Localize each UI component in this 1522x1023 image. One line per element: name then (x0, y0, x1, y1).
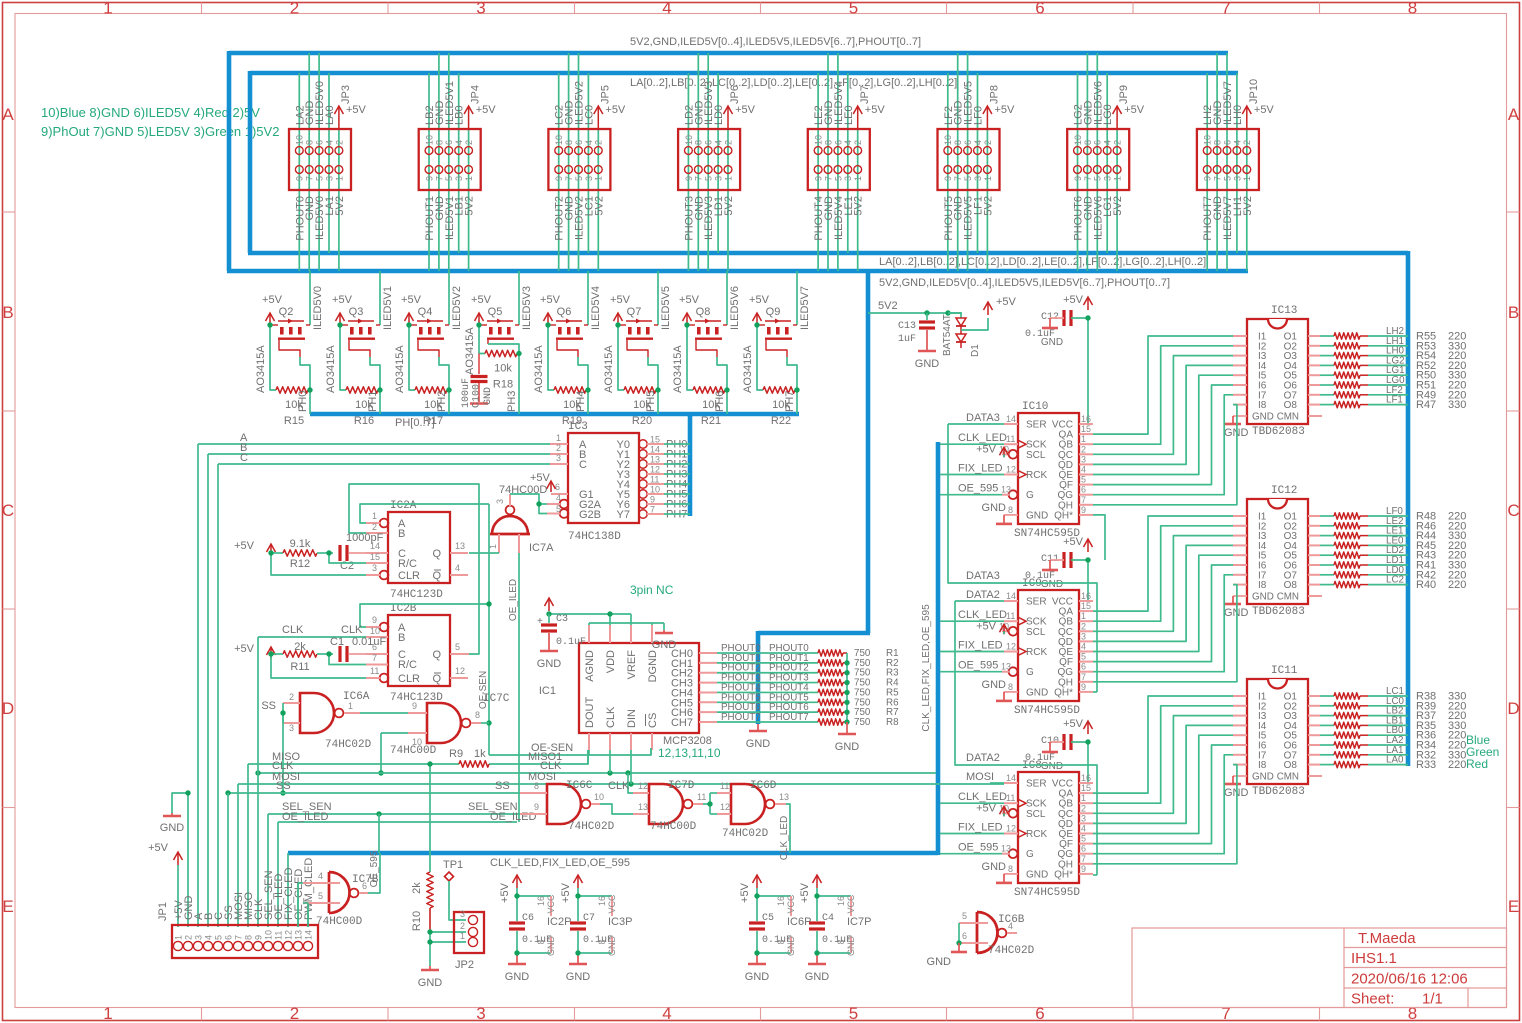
wire ILED5V5 from bus to Q7 (658, 271, 672, 330)
svg-text:R8: R8 (886, 717, 899, 728)
svg-text:1: 1 (1081, 434, 1086, 444)
svg-text:R9: R9 (449, 748, 463, 760)
svg-text:Q2: Q2 (279, 306, 294, 318)
svg-text:5: 5 (455, 642, 460, 652)
svg-text:+5V: +5V (476, 104, 497, 116)
svg-text:Q6: Q6 (557, 306, 572, 318)
svg-text:R22: R22 (771, 415, 791, 427)
svg-text:12: 12 (638, 781, 648, 791)
svg-text:CMN: CMN (1277, 592, 1299, 603)
svg-text:FIX_LED: FIX_LED (958, 822, 1003, 834)
svg-text:3: 3 (1103, 176, 1113, 181)
wire R10 to JP2 pin2 and GND (427, 929, 466, 966)
svg-text:7: 7 (1081, 854, 1086, 864)
svg-text:6: 6 (1035, 0, 1044, 18)
svg-text:10: 10 (684, 135, 694, 145)
frame row letters left (2, 105, 14, 916)
wire IC2A pin A to OE-SEN vertical (360, 504, 489, 523)
svg-text:9: 9 (814, 176, 824, 181)
svg-text:GND: GND (746, 738, 771, 750)
svg-text:OE_ILED: OE_ILED (508, 579, 519, 621)
svg-text:DATA3: DATA3 (966, 412, 1000, 424)
svg-text:PH5: PH5 (645, 391, 657, 412)
svg-text:MOSI: MOSI (528, 771, 556, 783)
IC12 output resistors and LED nets (1308, 506, 1466, 591)
svg-text:AO3415A: AO3415A (672, 345, 684, 393)
GND symbol below JP2 wires (418, 966, 443, 989)
svg-text:8: 8 (1083, 140, 1093, 145)
svg-text:JP2: JP2 (455, 959, 474, 971)
wire IC2B Q to IC2A pin B (349, 484, 479, 654)
wire gate of Q3 to resistor junction (370, 357, 380, 390)
pin net labels below JP3 (294, 196, 346, 241)
svg-text:1: 1 (103, 0, 112, 18)
svg-text:OE_595: OE_595 (958, 483, 998, 495)
svg-text:9: 9 (295, 176, 305, 181)
+5V arrow at C5 (739, 875, 762, 903)
svg-text:+5V: +5V (735, 104, 756, 116)
capacitor C6 0.1uF bypass for IC2P (509, 888, 571, 953)
svg-text:LA0: LA0 (324, 105, 336, 125)
svg-text:PH6: PH6 (714, 391, 726, 412)
svg-text:1: 1 (723, 176, 733, 181)
svg-text:11: 11 (1006, 793, 1015, 803)
svg-text:10: 10 (424, 135, 434, 145)
svg-text:ILED5V2: ILED5V2 (451, 286, 463, 330)
+5V arrow at C6 (499, 875, 522, 903)
wires for connector JP7 (818, 53, 858, 271)
svg-text:6: 6 (574, 140, 584, 145)
svg-text:I8: I8 (1258, 580, 1267, 591)
svg-text:VCC: VCC (607, 894, 617, 914)
svg-text:+5V: +5V (799, 882, 811, 903)
pin net labels above JP10 (1202, 81, 1244, 125)
svg-text:VDD: VDD (605, 650, 617, 673)
svg-text:8: 8 (434, 140, 444, 145)
wire JP1 PWM_CLED to IC7B pin5 (303, 903, 308, 927)
svg-text:SER: SER (1026, 420, 1047, 431)
svg-text:4: 4 (556, 493, 561, 503)
svg-text:5: 5 (962, 911, 967, 921)
wire IC6B inputs to GND (927, 923, 967, 968)
svg-text:SS: SS (276, 780, 291, 792)
svg-text:9: 9 (424, 176, 434, 181)
svg-text:LC2: LC2 (1386, 575, 1404, 586)
svg-text:2: 2 (460, 921, 465, 931)
svg-text:15: 15 (650, 435, 660, 445)
IC10 left pins (999, 414, 1026, 515)
svg-text:74HC02D: 74HC02D (568, 821, 615, 833)
svg-text:2: 2 (290, 0, 299, 18)
svg-text:220: 220 (1448, 759, 1466, 771)
svg-text:IC7C: IC7C (483, 693, 510, 705)
svg-text:GND: GND (982, 679, 1007, 691)
note text pin mapping line 2 (41, 124, 279, 139)
IC9 left pins (999, 591, 1026, 692)
svg-text:GND: GND (1252, 772, 1274, 783)
svg-text:1: 1 (1081, 611, 1086, 621)
svg-text:6: 6 (1081, 844, 1086, 854)
wire C4 VCC stub (817, 894, 856, 916)
capacitor C11 0.1uF (1025, 552, 1071, 590)
capacitor C3 0.1uF (537, 614, 586, 650)
wire ILED5V7 from bus to Q9 (797, 271, 811, 330)
svg-text:C100: C100 (472, 384, 483, 408)
svg-text:IC6C: IC6C (566, 780, 593, 792)
svg-text:+: + (537, 616, 543, 627)
svg-text:OE_ILED: OE_ILED (490, 811, 537, 823)
svg-text:GND: GND (1041, 579, 1063, 590)
svg-text:+5V: +5V (1063, 718, 1084, 730)
schottky diode D1 BAT54AT (942, 313, 981, 357)
wire source of Q4 down (409, 325, 415, 390)
svg-text:3: 3 (495, 499, 505, 504)
pin header connector JP9 (1067, 129, 1129, 190)
svg-text:12: 12 (283, 930, 293, 940)
svg-text:B: B (1508, 303, 1519, 322)
wire 5V2 from bus (868, 300, 962, 316)
svg-text:3: 3 (1081, 454, 1086, 464)
bus label CLK_LED,FIX_LED,OE_595 vertical (921, 604, 932, 732)
+5V supply arrow at JP4 (464, 85, 496, 129)
svg-text:2: 2 (723, 140, 733, 145)
svg-text:Q8: Q8 (696, 306, 711, 318)
svg-text:Sheet:: Sheet: (1351, 991, 1394, 1008)
svg-text:GND: GND (160, 822, 185, 834)
svg-text:4: 4 (318, 871, 323, 881)
+5V pullup at IC8 SCL (976, 802, 1008, 816)
svg-text:11: 11 (720, 781, 729, 791)
svg-text:74HC02D: 74HC02D (325, 739, 372, 751)
svg-text:13: 13 (638, 802, 648, 812)
svg-text:2: 2 (290, 1004, 299, 1023)
capacitor C5 0.1uF bypass for IC6P (749, 888, 811, 953)
+5V supply arrow at JP10 (1242, 79, 1274, 129)
svg-text:9: 9 (1081, 682, 1086, 692)
svg-text:1: 1 (334, 176, 344, 181)
svg-text:1: 1 (983, 176, 993, 181)
svg-text:SS: SS (495, 780, 510, 792)
svg-text:6: 6 (1081, 485, 1086, 495)
shift register IC10 SN74HC595D (1014, 401, 1080, 540)
wire D1 to +5V arrow (961, 296, 1017, 330)
+5V supply arrow at JP3 (334, 85, 366, 129)
IC12 input pin stubs (1233, 516, 1247, 585)
svg-text:G: G (1026, 667, 1034, 678)
pin net labels below JP9 (1073, 196, 1125, 241)
p-channel mosfet Q6 AO3415A (533, 319, 588, 394)
svg-text:R10: R10 (411, 911, 423, 931)
svg-text:9: 9 (1081, 505, 1086, 515)
svg-text:8: 8 (536, 939, 546, 944)
svg-text:3: 3 (289, 723, 294, 733)
wire ILED5V6 from bus to Q8 (727, 271, 741, 330)
svg-text:LD0: LD0 (713, 105, 725, 125)
svg-text:2: 2 (983, 140, 993, 145)
svg-text:1: 1 (372, 511, 377, 521)
svg-text:ILED5V0: ILED5V0 (312, 286, 324, 330)
svg-text:Q7: Q7 (627, 306, 642, 318)
svg-text:GND: GND (1026, 687, 1048, 698)
wire IC2A Q to IC7A input1 (469, 552, 499, 554)
resistor R16 10k (346, 387, 380, 427)
svg-text:D: D (2, 699, 14, 718)
svg-text:3: 3 (476, 0, 485, 18)
svg-text:LA[0..2],LB[0..2],LC[0..2],LD[: LA[0..2],LB[0..2],LC[0..2],LD[0..2],LE[0… (630, 77, 957, 89)
svg-text:+5V: +5V (610, 294, 631, 306)
led driver IC11 TBD62083 (1247, 665, 1308, 798)
wire C10 to +5V and VCC (1063, 718, 1092, 783)
+5V arrow at Q2 (262, 294, 293, 325)
wire source of Q5 down (479, 325, 485, 354)
svg-text:C13: C13 (898, 321, 916, 332)
svg-text:10: 10 (554, 135, 564, 145)
svg-text:GND: GND (1252, 412, 1274, 423)
svg-text:7: 7 (564, 176, 574, 181)
svg-text:Q: Q (432, 570, 441, 582)
svg-text:T.Maeda: T.Maeda (1358, 930, 1416, 947)
svg-text:8: 8 (1408, 1004, 1417, 1023)
svg-text:13: 13 (1001, 844, 1011, 854)
svg-text:1/1: 1/1 (1422, 991, 1443, 1008)
svg-text:LH0: LH0 (1232, 105, 1244, 125)
IC11 input pin stubs (1233, 696, 1247, 765)
title block (1132, 928, 1507, 1008)
svg-text:OE_595: OE_595 (369, 850, 380, 887)
svg-text:15: 15 (370, 552, 380, 562)
wire OE-SEN net vertical (478, 504, 492, 755)
svg-text:PH7: PH7 (784, 391, 796, 412)
svg-text:10: 10 (594, 792, 604, 802)
svg-text:R12: R12 (290, 558, 310, 570)
IC9 GND pin symbol (982, 679, 1018, 701)
svg-text:O8: O8 (1284, 760, 1298, 771)
svg-text:CLK_LED: CLK_LED (958, 791, 1007, 803)
pin net labels above JP5 (554, 81, 596, 125)
svg-text:2: 2 (372, 522, 377, 532)
p-channel mosfet Q3 AO3415A (325, 319, 380, 394)
+5V arrow at Q8 (679, 294, 710, 325)
svg-text:8: 8 (1408, 0, 1417, 18)
svg-text:11: 11 (697, 792, 706, 802)
svg-text:16: 16 (536, 896, 546, 906)
svg-text:JP1: JP1 (157, 902, 169, 921)
svg-text:C4: C4 (822, 913, 834, 924)
bus 5V2/GND/ILED5V/PHOUT outer loop top (229, 51, 1228, 56)
junction dots IC2A (268, 550, 331, 555)
svg-text:11: 11 (1006, 611, 1015, 621)
svg-text:LF1: LF1 (1386, 395, 1403, 406)
svg-text:6: 6 (1035, 1004, 1044, 1023)
svg-text:RCK: RCK (1026, 470, 1047, 481)
svg-text:12: 12 (455, 666, 465, 676)
svg-text:IC2P: IC2P (547, 916, 571, 928)
svg-text:15: 15 (1081, 601, 1091, 611)
svg-text:E: E (2, 897, 13, 916)
bus label LA..LH bottom (879, 256, 1206, 268)
junction dots at Q5 (476, 322, 521, 356)
wire source of Q3 down (340, 325, 346, 390)
svg-text:8: 8 (305, 140, 315, 145)
wire C6 GND stub (517, 936, 556, 957)
svg-text:13: 13 (779, 792, 789, 802)
svg-text:CMN: CMN (1277, 772, 1299, 783)
svg-text:10k: 10k (494, 363, 512, 375)
svg-text:CLR: CLR (398, 570, 420, 582)
svg-text:5: 5 (963, 176, 973, 181)
svg-text:R40: R40 (1416, 579, 1436, 591)
svg-text:74HC00D: 74HC00D (316, 916, 363, 928)
svg-text:8: 8 (534, 781, 539, 791)
pin net labels above JP4 (424, 81, 466, 125)
svg-text:IC7D: IC7D (668, 780, 695, 792)
+5V arrow at Q9 (749, 294, 780, 325)
IC3 input pins A B C (550, 433, 568, 464)
pin net labels below JP4 (424, 196, 476, 241)
svg-text:B: B (398, 528, 405, 540)
+5V arrow above JP1 pin1 (148, 842, 182, 865)
nand gate IC7A 74HC00D (488, 494, 554, 554)
svg-text:I8: I8 (1258, 760, 1267, 771)
svg-text:JP9: JP9 (1118, 85, 1130, 104)
svg-text:Red: Red (1466, 757, 1488, 771)
svg-text:3: 3 (1081, 813, 1086, 823)
svg-text:11: 11 (1006, 434, 1015, 444)
svg-text:R15: R15 (284, 415, 304, 427)
svg-text:CLK_LED: CLK_LED (779, 816, 790, 860)
svg-text:9: 9 (684, 176, 694, 181)
svg-text:1000pF: 1000pF (346, 532, 384, 544)
svg-text:1k: 1k (474, 748, 486, 760)
svg-text:9: 9 (372, 615, 377, 625)
svg-text:11: 11 (370, 666, 379, 676)
wire source of Q6 down (548, 325, 554, 390)
svg-text:+5V: +5V (346, 104, 367, 116)
svg-text:+5V: +5V (234, 643, 255, 655)
svg-text:14: 14 (303, 930, 313, 940)
wires into IC10 control pins (940, 412, 1007, 495)
svg-text:TBD62083: TBD62083 (1252, 606, 1305, 618)
wire C6 VCC stub (517, 894, 556, 916)
pin header connector JP8 (938, 129, 1000, 190)
wire gate of Q7 to resistor junction (648, 357, 658, 390)
svg-text:9: 9 (943, 176, 953, 181)
svg-text:O8: O8 (1284, 400, 1298, 411)
svg-text:JP3: JP3 (340, 85, 352, 104)
bus inner loop bottom (248, 251, 1408, 256)
wire gate of Q2 to resistor junction (300, 357, 310, 390)
bus label 5V2 top (630, 36, 921, 48)
+5V supply arrow at JP7 (853, 85, 885, 129)
svg-text:IC9: IC9 (1022, 578, 1042, 590)
svg-text:SS: SS (261, 700, 276, 712)
wire IC7C input2 to CLK row (378, 733, 408, 776)
resistor R20 10k (624, 387, 658, 427)
svg-text:D: D (1507, 699, 1519, 718)
nor gate IC6B 74HC02D spare (959, 911, 1035, 957)
IC8 left pins (999, 773, 1026, 874)
svg-text:16: 16 (597, 896, 607, 906)
pin net labels below JP8 (943, 196, 995, 241)
svg-text:1: 1 (173, 935, 183, 940)
svg-text:G: G (1026, 490, 1034, 501)
svg-text:PH1: PH1 (367, 391, 379, 412)
svg-text:VREF: VREF (626, 650, 638, 680)
wire source of Q9 down (757, 325, 763, 390)
svg-text:5: 5 (1081, 834, 1086, 844)
svg-text:+5V: +5V (976, 620, 997, 632)
p-channel mosfet Q9 AO3415A (742, 319, 797, 394)
svg-text:8: 8 (776, 939, 786, 944)
svg-text:RCK: RCK (1026, 829, 1047, 840)
bus inner loop left vertical (248, 71, 253, 253)
wire PH6 to bus (714, 390, 727, 414)
pin net labels above JP7 (813, 81, 855, 125)
nor gate IC6C 74HC02D (520, 780, 615, 833)
svg-text:+5V: +5V (262, 294, 283, 306)
bus PH0..7 horizontal (310, 412, 799, 417)
svg-text:14: 14 (1006, 773, 1016, 783)
junction dots IC2B (268, 651, 331, 656)
svg-text:CLK_LED: CLK_LED (958, 432, 1007, 444)
wire CLK to IC2B pin B (258, 624, 366, 637)
svg-text:RCK: RCK (1026, 647, 1047, 658)
svg-text:74HC02D: 74HC02D (988, 945, 1035, 957)
pin header JP2 (454, 909, 484, 971)
svg-text:LE0: LE0 (843, 105, 855, 125)
junction dots at Q4 (406, 322, 451, 392)
svg-text:1: 1 (460, 931, 465, 941)
wire IC6A out to IC7C in (360, 712, 408, 714)
IC13 input pin stubs (1233, 336, 1247, 405)
svg-text:A: A (2, 105, 14, 124)
svg-text:GND: GND (418, 977, 443, 989)
IC1 channel wires and PHOUT labels (699, 643, 818, 723)
svg-text:GND: GND (786, 936, 796, 957)
p-channel mosfet Q2 AO3415A (255, 319, 310, 394)
svg-text:14: 14 (650, 445, 660, 455)
svg-text:R/C: R/C (398, 558, 417, 570)
svg-text:C6: C6 (522, 913, 534, 924)
svg-text:JP5: JP5 (599, 85, 611, 104)
wire CLK row (255, 760, 936, 776)
svg-text:5V2: 5V2 (334, 196, 346, 216)
svg-text:CLK_LED,FIX_LED,OE_595: CLK_LED,FIX_LED,OE_595 (921, 604, 932, 732)
svg-text:1: 1 (464, 176, 474, 181)
wire PH3 to bus (506, 354, 519, 415)
svg-text:12,13,11,10: 12,13,11,10 (658, 746, 721, 760)
bus outer loop left vertical (227, 51, 232, 271)
svg-text:5: 5 (444, 176, 454, 181)
svg-text:5V2: 5V2 (593, 196, 605, 216)
wires for connector JP10 (1207, 53, 1247, 271)
svg-text:DOUT: DOUT (584, 697, 596, 728)
svg-text:C2: C2 (340, 560, 354, 572)
svg-text:2: 2 (556, 443, 561, 453)
svg-text:9: 9 (412, 701, 417, 711)
svg-text:8: 8 (694, 140, 704, 145)
p-channel mosfet Q7 AO3415A (603, 319, 658, 394)
resistor R19 10k (554, 387, 588, 427)
svg-text:16: 16 (1081, 591, 1091, 601)
svg-text:+5V: +5V (996, 296, 1017, 308)
svg-text:4: 4 (324, 140, 334, 145)
svg-text:PHOUT7: PHOUT7 (769, 712, 809, 723)
svg-text:1: 1 (594, 176, 604, 181)
svg-text:5V2,GND,ILED5V[0..4],ILED5V5,I: 5V2,GND,ILED5V[0..4],ILED5V5,ILED5V[6..7… (630, 36, 921, 48)
junction dots at Q7 (615, 322, 660, 392)
svg-text:4: 4 (1081, 465, 1086, 475)
